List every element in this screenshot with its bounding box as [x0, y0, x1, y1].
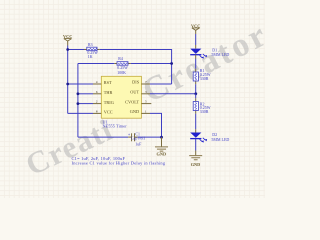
svg-text:GND: GND — [191, 162, 201, 167]
ground GND (center) — [155, 137, 168, 157]
svg-text:TRIG: TRIG — [104, 100, 114, 105]
svg-text:100K: 100K — [117, 71, 126, 75]
wire R3 row left segment — [68, 49, 84, 51]
svg-text:5MM LED: 5MM LED — [211, 52, 229, 57]
svg-text:NE555 Timer: NE555 Timer — [103, 123, 128, 128]
wire OUT to R1/R2 junction — [150, 93, 196, 95]
wire D2 to GND — [195, 139, 197, 151]
wire D1 to R1 — [195, 55, 197, 59]
svg-text:GND: GND — [157, 152, 167, 157]
pin 1 GND stub — [141, 112, 150, 114]
pin 7 DIS stub — [141, 83, 150, 85]
wire R4 left elbow down (trig/thr rail) — [77, 64, 79, 138]
wire TRIG row — [78, 103, 93, 105]
pin 8 VCC stub — [93, 112, 101, 114]
svg-text:330R: 330R — [200, 76, 209, 81]
wire VCC left rail vertical — [67, 46, 69, 114]
wire RST row — [68, 83, 93, 85]
svg-text:Increase C1 value for Higher D: Increase C1 value for Higher Delay in fl… — [72, 161, 166, 166]
wire junction to R2 — [195, 94, 197, 99]
power port VCC (right) — [191, 23, 200, 34]
junction C1 / GND — [160, 136, 163, 139]
resistor R3 — [84, 47, 100, 51]
wire C1 to GND junction — [138, 136, 162, 138]
wire VCC pin row — [68, 112, 93, 114]
pin 6 THR stub — [93, 93, 101, 95]
pin 5 CVOLT stub (unconnected) — [141, 103, 151, 105]
svg-text:DIS: DIS — [132, 80, 140, 85]
svg-text:R3: R3 — [88, 43, 93, 47]
svg-text:330R: 330R — [200, 109, 209, 114]
wire GND pin to cap junction — [150, 113, 162, 137]
junction RST / VCC rail — [66, 83, 69, 86]
wire R2 to D2 — [195, 114, 197, 130]
wire THR/TRIG rail to C1 — [78, 136, 128, 138]
pin 4 RST stub — [93, 83, 101, 85]
resistor R4 — [114, 62, 131, 65]
svg-text:OUT: OUT — [130, 90, 139, 95]
LED D2 — [190, 133, 207, 143]
svg-text:1uF: 1uF — [135, 143, 142, 147]
ground GND (right) — [189, 156, 202, 168]
wire DIS pin row — [150, 83, 172, 85]
svg-text:GND: GND — [130, 109, 139, 114]
resistor R2 — [193, 98, 198, 113]
op-amp U1 NE555 timer body — [101, 76, 141, 118]
resistor R1 — [193, 69, 198, 84]
svg-text:1K: 1K — [88, 55, 93, 59]
LED D1 — [190, 49, 207, 59]
junction TRIG rail — [77, 102, 80, 105]
wire VCC to D1 — [195, 34, 197, 45]
wire R1 to junction — [195, 84, 197, 94]
power port VCC (left) — [63, 34, 72, 46]
svg-text:0.25W: 0.25W — [117, 66, 128, 70]
svg-text:CVOLT: CVOLT — [125, 99, 139, 104]
svg-text:THR: THR — [104, 90, 113, 95]
junction R3/R4 right — [170, 62, 173, 65]
junction THR rail — [77, 92, 80, 95]
junction OUT / R1 / R2 — [194, 92, 197, 95]
wire R4 right to junction — [131, 63, 172, 65]
pin 3 OUT stub — [141, 93, 150, 95]
junction VCC rail / R3 — [66, 48, 69, 51]
svg-text:VCC: VCC — [104, 110, 113, 115]
capacitor C1 polarized — [128, 132, 138, 141]
svg-text:RST: RST — [104, 80, 112, 85]
wire THR row — [78, 93, 93, 95]
svg-text:5MM LED: 5MM LED — [211, 137, 229, 142]
pin 2 TRIG stub — [93, 103, 101, 105]
wire R3 to right vertical — [100, 50, 172, 85]
svg-text:R4: R4 — [118, 57, 123, 61]
